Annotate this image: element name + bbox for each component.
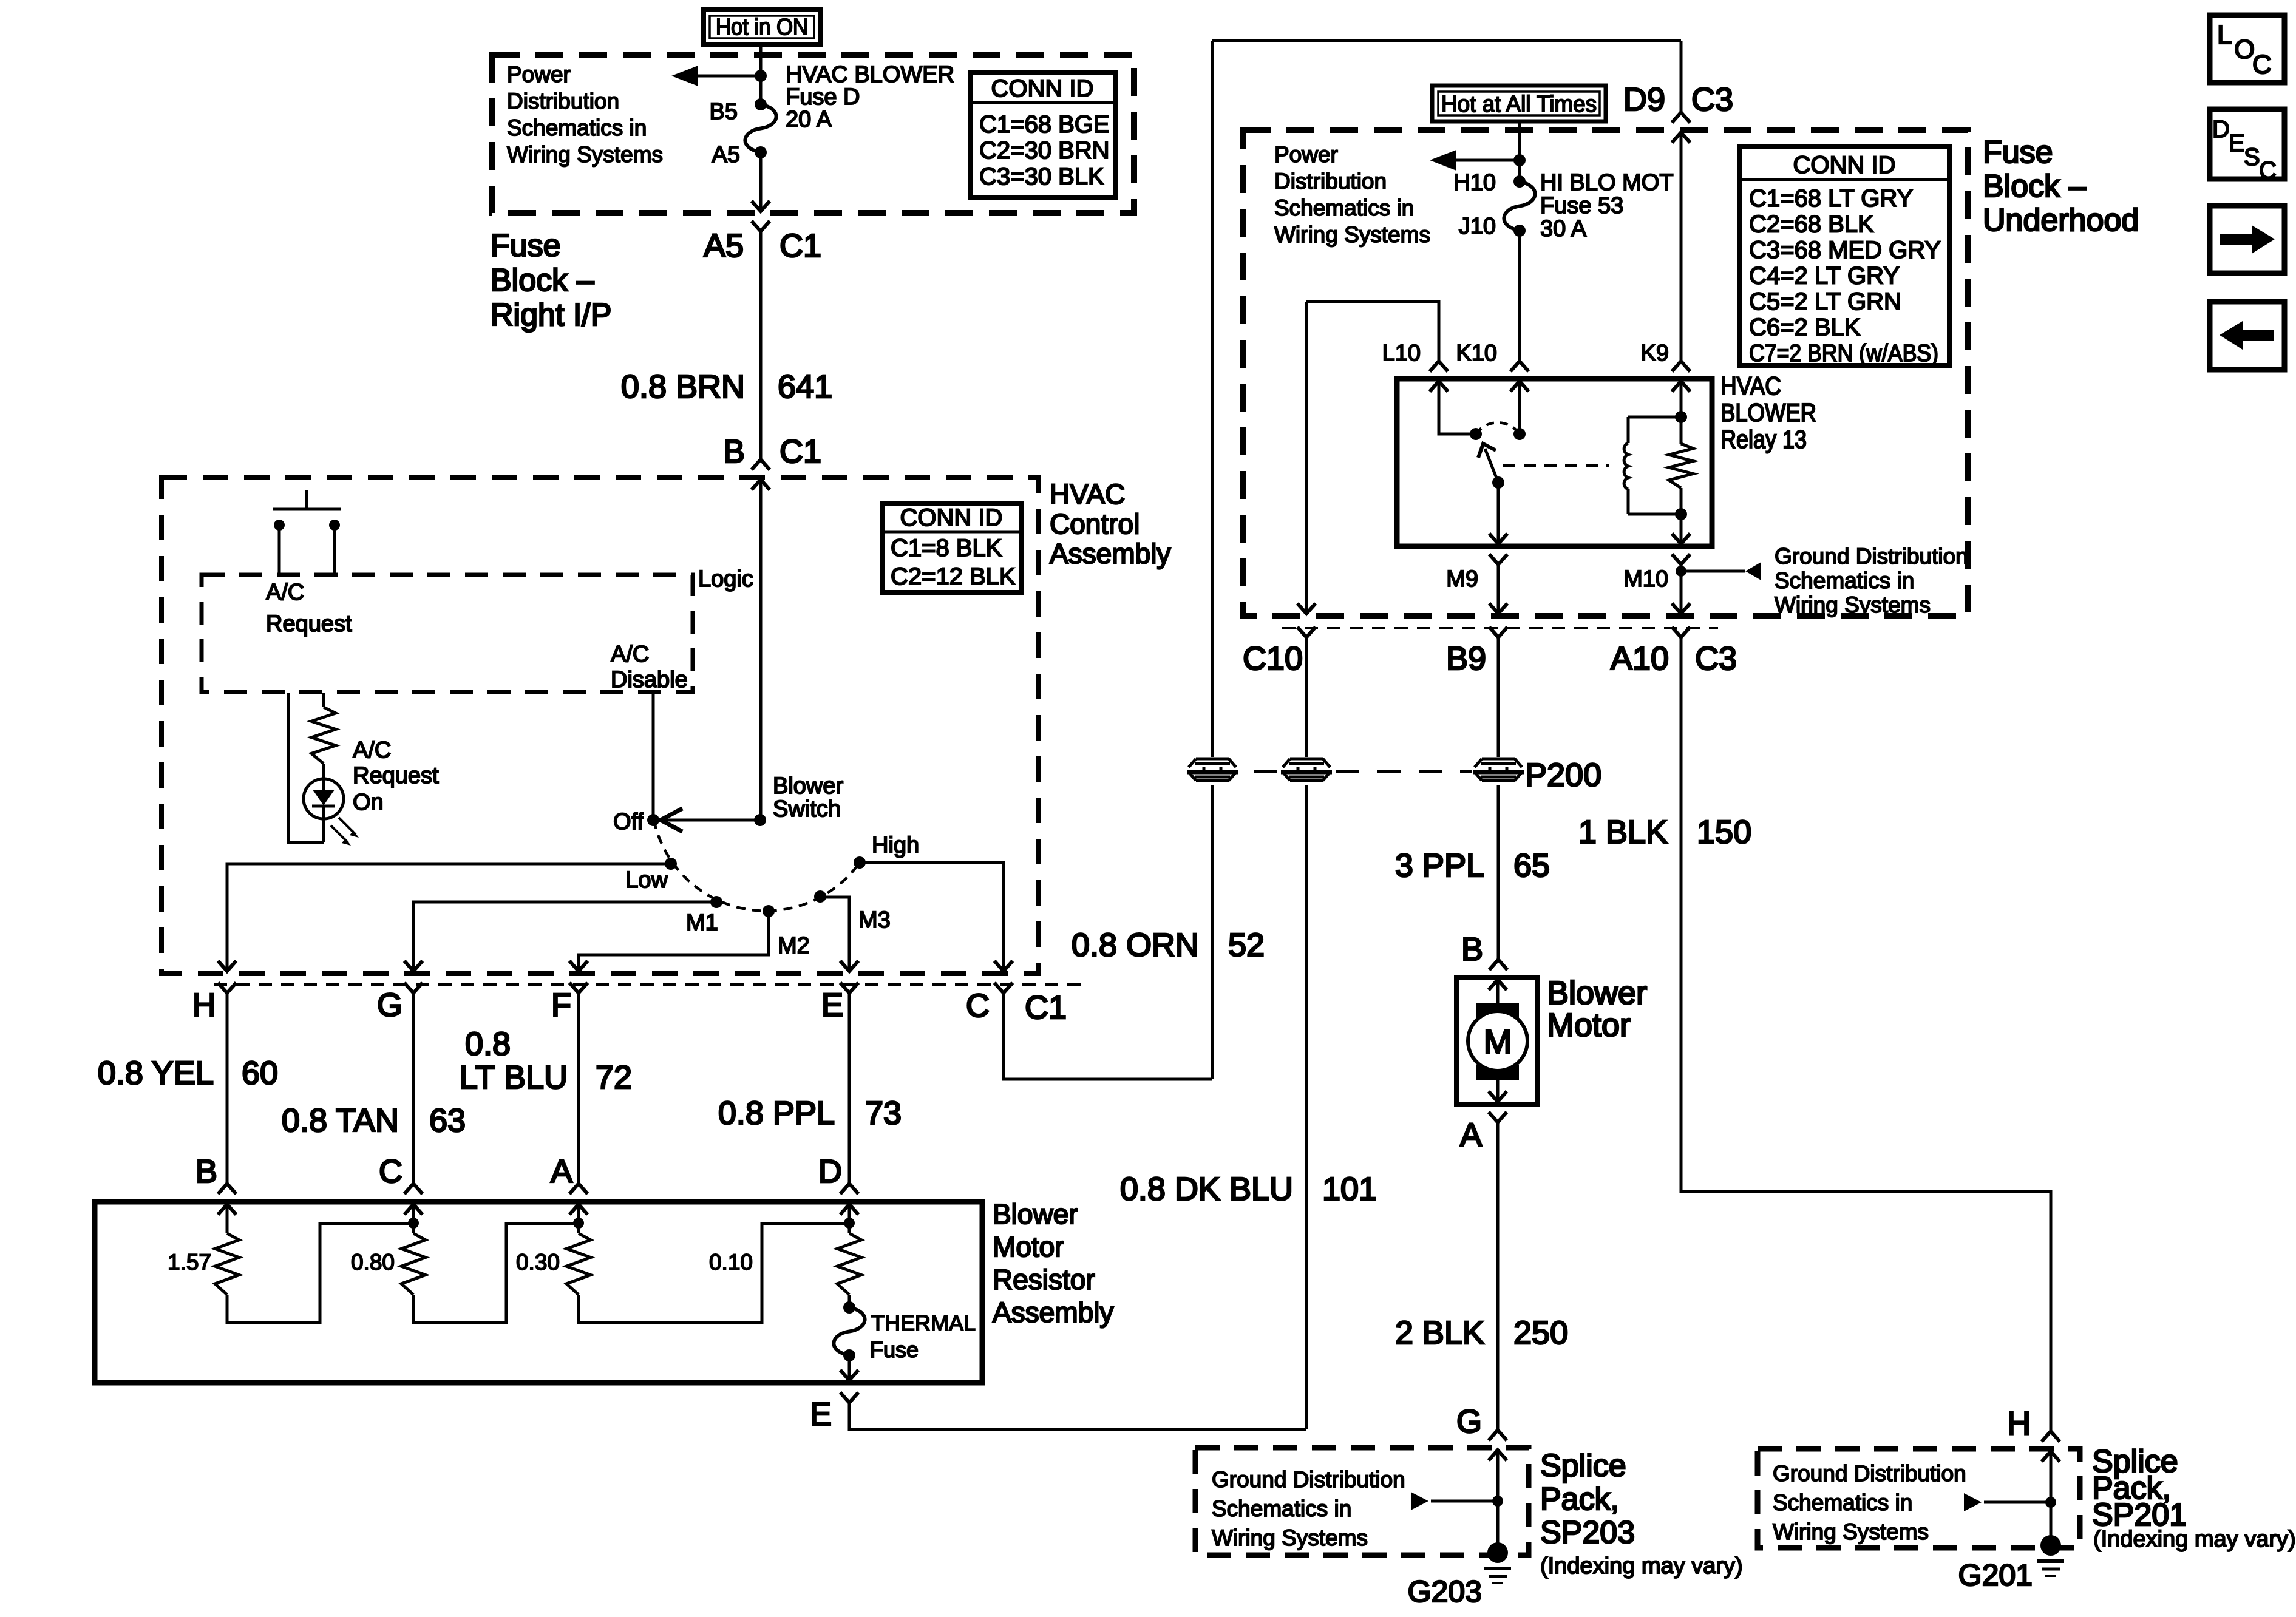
svg-text:B: B [195, 1153, 217, 1190]
svg-text:On: On [353, 790, 384, 815]
svg-text:(Indexing may vary): (Indexing may vary) [1540, 1553, 1743, 1579]
svg-text:C1=68 LT GRY: C1=68 LT GRY [1749, 185, 1913, 212]
svg-text:S: S [2244, 144, 2260, 171]
svg-text:Wiring Systems: Wiring Systems [1212, 1525, 1368, 1550]
svg-text:H10: H10 [1453, 170, 1496, 195]
svg-text:Block –: Block – [491, 263, 594, 298]
svg-text:Hot in ON: Hot in ON [716, 15, 808, 40]
svg-text:E: E [821, 987, 843, 1023]
svg-text:52: 52 [1228, 927, 1265, 963]
svg-text:C2=68 BLK: C2=68 BLK [1749, 211, 1874, 238]
svg-text:D9: D9 [1623, 81, 1665, 118]
svg-text:150: 150 [1697, 814, 1751, 850]
svg-text:A10: A10 [1611, 640, 1669, 677]
svg-text:73: 73 [865, 1095, 902, 1131]
svg-text:60: 60 [242, 1055, 278, 1091]
svg-text:Schematics in: Schematics in [507, 115, 647, 140]
svg-text:CONN ID: CONN ID [1793, 152, 1896, 178]
svg-text:G201: G201 [1958, 1558, 2033, 1592]
svg-text:G: G [1456, 1403, 1482, 1440]
svg-text:M: M [1484, 1022, 1512, 1060]
svg-text:P200: P200 [1525, 757, 1601, 793]
svg-text:C1: C1 [779, 433, 821, 470]
svg-text:Blower: Blower [993, 1198, 1078, 1230]
svg-text:M3: M3 [858, 907, 891, 933]
svg-text:0.8 YEL: 0.8 YEL [98, 1055, 214, 1091]
svg-text:Low: Low [625, 867, 668, 893]
svg-text:H: H [2007, 1405, 2031, 1442]
svg-text:B9: B9 [1446, 640, 1486, 677]
svg-text:(Indexing may vary): (Indexing may vary) [2093, 1527, 2296, 1552]
svg-text:Control: Control [1050, 508, 1140, 540]
svg-text:Logic: Logic [698, 566, 753, 592]
svg-text:C2=30 BRN: C2=30 BRN [979, 137, 1110, 164]
svg-text:101: 101 [1322, 1171, 1377, 1207]
svg-text:HVAC BLOWER: HVAC BLOWER [786, 62, 954, 87]
svg-text:Off: Off [613, 809, 644, 835]
svg-text:C10: C10 [1243, 640, 1303, 677]
svg-text:0.30: 0.30 [516, 1250, 560, 1275]
svg-text:Motor: Motor [993, 1231, 1064, 1263]
svg-text:HI BLO MOT: HI BLO MOT [1540, 170, 1674, 195]
svg-text:A/C: A/C [611, 642, 649, 667]
svg-text:L: L [2217, 20, 2232, 50]
svg-text:L10: L10 [1382, 341, 1421, 366]
svg-text:Underhood: Underhood [1983, 203, 2139, 238]
svg-text:1.57: 1.57 [168, 1250, 211, 1275]
svg-text:C4=2 LT GRY: C4=2 LT GRY [1749, 263, 1900, 290]
svg-text:G203: G203 [1408, 1575, 1482, 1609]
svg-text:Power: Power [1274, 142, 1338, 167]
svg-text:Request: Request [266, 611, 352, 637]
svg-text:CONN ID: CONN ID [991, 75, 1094, 102]
svg-text:Motor: Motor [1547, 1007, 1631, 1043]
svg-text:Request: Request [353, 763, 439, 788]
svg-text:C2=12 BLK: C2=12 BLK [891, 563, 1016, 590]
svg-text:A5: A5 [704, 228, 744, 264]
svg-text:C5=2 LT GRN: C5=2 LT GRN [1749, 288, 1901, 315]
svg-text:Switch: Switch [773, 796, 841, 822]
svg-text:Distribution: Distribution [507, 89, 619, 114]
svg-text:F: F [551, 987, 571, 1023]
svg-text:K9: K9 [1641, 341, 1669, 366]
svg-text:Pack,: Pack, [1540, 1482, 1619, 1517]
svg-text:Ground Distribution: Ground Distribution [1212, 1467, 1405, 1492]
svg-text:Blower: Blower [1547, 975, 1647, 1011]
svg-text:Relay 13: Relay 13 [1720, 425, 1807, 453]
svg-text:BLOWER: BLOWER [1720, 398, 1816, 427]
svg-text:A: A [1460, 1117, 1482, 1153]
svg-text:SP203: SP203 [1540, 1515, 1635, 1550]
svg-text:A: A [551, 1153, 572, 1190]
svg-text:Schematics in: Schematics in [1274, 195, 1414, 220]
svg-text:Assembly: Assembly [993, 1297, 1113, 1328]
svg-text:Ground Distribution: Ground Distribution [1775, 544, 1968, 569]
svg-text:G: G [377, 987, 402, 1023]
svg-text:A/C: A/C [266, 580, 304, 605]
svg-text:Fuse 53: Fuse 53 [1540, 193, 1623, 219]
svg-text:Ground Distribution: Ground Distribution [1773, 1461, 1966, 1486]
svg-text:B: B [1461, 931, 1483, 968]
svg-text:72: 72 [596, 1059, 632, 1096]
svg-text:Block –: Block – [1983, 169, 2087, 204]
svg-text:HVAC: HVAC [1720, 371, 1781, 400]
svg-text:0.8 PPL: 0.8 PPL [718, 1095, 835, 1131]
svg-text:C1=8 BLK: C1=8 BLK [891, 535, 1002, 561]
svg-text:M1: M1 [686, 910, 718, 935]
svg-text:Splice: Splice [1540, 1448, 1626, 1483]
svg-text:C1=68 BGE: C1=68 BGE [979, 111, 1110, 138]
svg-text:Hot at All Times: Hot at All Times [1441, 92, 1597, 117]
svg-text:C1: C1 [1025, 989, 1067, 1026]
svg-text:0.8: 0.8 [465, 1026, 511, 1062]
svg-text:K10: K10 [1456, 341, 1497, 366]
svg-text:C: C [2259, 157, 2277, 184]
svg-text:H: H [192, 987, 216, 1023]
svg-text:3 PPL: 3 PPL [1395, 847, 1484, 884]
svg-text:M2: M2 [778, 933, 810, 958]
svg-text:THERMAL: THERMAL [871, 1310, 976, 1335]
svg-text:0.80: 0.80 [351, 1250, 395, 1275]
svg-text:A/C: A/C [353, 737, 391, 763]
svg-text:CONN ID: CONN ID [900, 504, 1003, 531]
svg-text:65: 65 [1513, 847, 1550, 884]
svg-text:C3=30 BLK: C3=30 BLK [979, 163, 1104, 190]
svg-text:C: C [2252, 50, 2272, 80]
svg-text:E: E [2229, 130, 2245, 157]
svg-text:Wiring Systems: Wiring Systems [1773, 1519, 1929, 1544]
svg-text:E: E [810, 1396, 832, 1432]
svg-text:HVAC: HVAC [1050, 478, 1125, 510]
svg-text:C6=2 BLK: C6=2 BLK [1749, 314, 1861, 341]
svg-text:0.8 BRN: 0.8 BRN [621, 368, 745, 405]
svg-text:C3: C3 [1691, 81, 1733, 118]
svg-text:Schematics in: Schematics in [1773, 1490, 1912, 1515]
svg-text:Wiring Systems: Wiring Systems [1274, 222, 1430, 247]
svg-text:Wiring Systems: Wiring Systems [507, 142, 663, 167]
svg-text:Fuse: Fuse [491, 228, 561, 263]
svg-text:Fuse D: Fuse D [786, 84, 860, 110]
svg-text:63: 63 [429, 1102, 466, 1139]
svg-text:C7=2 BRN (w/ABS): C7=2 BRN (w/ABS) [1749, 340, 1938, 367]
svg-text:Schematics in: Schematics in [1775, 568, 1914, 593]
svg-text:Fuse: Fuse [870, 1337, 919, 1362]
svg-text:LT BLU: LT BLU [460, 1059, 568, 1096]
svg-text:C1: C1 [779, 228, 821, 264]
svg-text:Distribution: Distribution [1274, 169, 1387, 194]
svg-text:C: C [379, 1153, 402, 1190]
svg-text:M9: M9 [1446, 566, 1478, 592]
svg-text:0.8 DK BLU: 0.8 DK BLU [1120, 1171, 1293, 1207]
svg-text:30 A: 30 A [1540, 216, 1587, 242]
svg-text:0.8 ORN: 0.8 ORN [1072, 927, 1199, 963]
svg-text:Fuse: Fuse [1983, 135, 2053, 170]
svg-text:High: High [872, 833, 919, 858]
svg-text:Schematics in: Schematics in [1212, 1496, 1351, 1521]
svg-text:250: 250 [1513, 1315, 1568, 1351]
svg-text:641: 641 [778, 368, 832, 405]
svg-text:C3: C3 [1695, 640, 1737, 677]
svg-text:Assembly: Assembly [1050, 538, 1170, 569]
svg-text:0.8 TAN: 0.8 TAN [282, 1102, 399, 1139]
svg-text:B5: B5 [710, 99, 738, 124]
svg-text:1 BLK: 1 BLK [1578, 814, 1668, 850]
svg-text:D: D [818, 1153, 842, 1190]
svg-text:Wiring Systems: Wiring Systems [1775, 592, 1931, 617]
svg-text:2 BLK: 2 BLK [1395, 1315, 1484, 1351]
svg-text:J10: J10 [1459, 214, 1496, 239]
svg-text:C: C [966, 988, 990, 1024]
svg-text:B: B [723, 433, 745, 470]
svg-text:Disable: Disable [611, 667, 688, 693]
svg-text:Right I/P: Right I/P [491, 297, 611, 333]
svg-text:A5: A5 [712, 142, 740, 168]
svg-text:C3=68 MED GRY: C3=68 MED GRY [1749, 237, 1941, 263]
svg-text:Resistor: Resistor [993, 1264, 1095, 1295]
svg-text:Blower: Blower [773, 773, 843, 799]
svg-text:0.10: 0.10 [709, 1250, 753, 1275]
svg-text:Power: Power [507, 62, 571, 87]
svg-text:20 A: 20 A [786, 107, 832, 132]
svg-text:D: D [2212, 116, 2230, 143]
svg-text:M10: M10 [1623, 566, 1668, 592]
